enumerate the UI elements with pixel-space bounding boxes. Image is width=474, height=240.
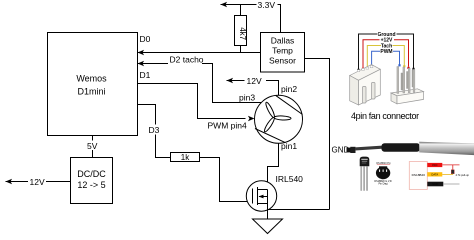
- svg-text:pin1: pin1: [281, 141, 297, 151]
- svg-text:4.7k pull-up: 4.7k pull-up: [456, 173, 470, 177]
- svg-text:Temp: Temp: [272, 46, 293, 56]
- svg-text:VCC: VCC: [432, 163, 438, 167]
- wiring label box DS18B20: [409, 162, 469, 190]
- resistor R2 1k: [171, 153, 200, 163]
- svg-text:Wemos: Wemos: [76, 74, 107, 84]
- photo: TO-92 DS18B20: [360, 157, 370, 191]
- wire 3.3V rail: [221, 2, 281, 33]
- +12V wire label: [362, 38, 410, 70]
- svg-text:3.3V: 3.3V: [258, 0, 276, 10]
- svg-text:pin3: pin3: [239, 93, 255, 103]
- wire D0 to Dallas sensor: [138, 50, 261, 55]
- svg-text:pin2: pin2: [281, 84, 297, 94]
- net label 12V: [245, 76, 267, 86]
- svg-text:D0: D0: [140, 34, 151, 44]
- svg-text:DATA: DATA: [431, 173, 438, 177]
- svg-text:D1mini: D1mini: [77, 87, 105, 97]
- Dallas temp sensor U2: [261, 33, 305, 73]
- svg-text:D3: D3: [149, 125, 160, 135]
- pinout diagram TO-92 bottom view: [374, 162, 391, 186]
- svg-text:D2 tacho: D2 tacho: [170, 54, 204, 64]
- wire 1k to MOSFET gate: [200, 158, 253, 202]
- svg-text:4pin fan connector: 4pin fan connector: [351, 111, 419, 121]
- svg-text:Pin Diag: Pin Diag: [378, 183, 388, 186]
- wire 5V Wemos to DC/DC: [92, 136, 94, 158]
- svg-text:12 -> 5: 12 -> 5: [77, 180, 105, 190]
- net label D2 tacho: [168, 54, 204, 64]
- DC/DC converter U3: [71, 158, 113, 204]
- svg-text:DC/DC: DC/DC: [77, 169, 106, 179]
- pin label D3: [148, 125, 163, 136]
- net label 5V: [86, 141, 99, 151]
- red VCC wire: [427, 163, 442, 167]
- svg-text:GND: GND: [432, 182, 438, 186]
- svg-text:PWM: PWM: [380, 49, 392, 55]
- ground symbol: [253, 219, 283, 234]
- svg-text:12V: 12V: [247, 76, 262, 86]
- net label 3.3V: [257, 0, 278, 10]
- resistor R1 4k7 pull-up: [235, 16, 248, 46]
- illustration: female fan plug: [350, 65, 381, 106]
- wire fan pin1 to MOSFET drain: [268, 143, 279, 189]
- photo: DS18B20 waterproof probe: [347, 142, 474, 155]
- wire 12V to fan pin2: [227, 78, 279, 96]
- svg-text:Dallas: Dallas: [271, 36, 295, 46]
- svg-text:4k7: 4k7: [238, 27, 247, 40]
- svg-text:D1: D1: [140, 70, 151, 80]
- svg-text:1k: 1k: [181, 153, 190, 162]
- svg-text:DS18B20 Pin: DS18B20 Pin: [376, 162, 391, 165]
- wire GND rail from Dallas sensor: [305, 59, 330, 210]
- wire MOSFET source to GND rail: [268, 209, 330, 211]
- ground wire label: [357, 32, 414, 71]
- illustration: male fan header: [391, 67, 424, 104]
- PWM wire label: [371, 49, 401, 68]
- svg-text:PWM pin4: PWM pin4: [208, 120, 247, 130]
- wire D2 tacho: [138, 61, 264, 103]
- pull-up resistor 4.7k: [452, 165, 454, 170]
- transistor Q1 IRL540: [246, 181, 276, 219]
- svg-text:Sensor: Sensor: [269, 56, 296, 66]
- tach wire label: [366, 43, 405, 69]
- svg-text:12V: 12V: [30, 177, 45, 187]
- svg-text:5V: 5V: [87, 141, 98, 151]
- wire 4k7 to 3.3V and to D0: [240, 5, 242, 53]
- Wemos D1mini module U1: [48, 33, 138, 136]
- yellow DATA wire: [427, 172, 442, 176]
- wire -12V input: [6, 179, 72, 184]
- svg-text:IRL540: IRL540: [276, 174, 304, 184]
- net label 12V input: [28, 177, 46, 187]
- wire D3 to resistor 1k: [138, 105, 172, 158]
- fan M1: [255, 95, 303, 143]
- black GND wire: [427, 182, 443, 187]
- svg-text:DS18B20: DS18B20: [412, 173, 426, 177]
- wire D1 to fan PWM pin4: [138, 84, 255, 122]
- illustration: 4pin fan connector wiring labels: [357, 32, 414, 71]
